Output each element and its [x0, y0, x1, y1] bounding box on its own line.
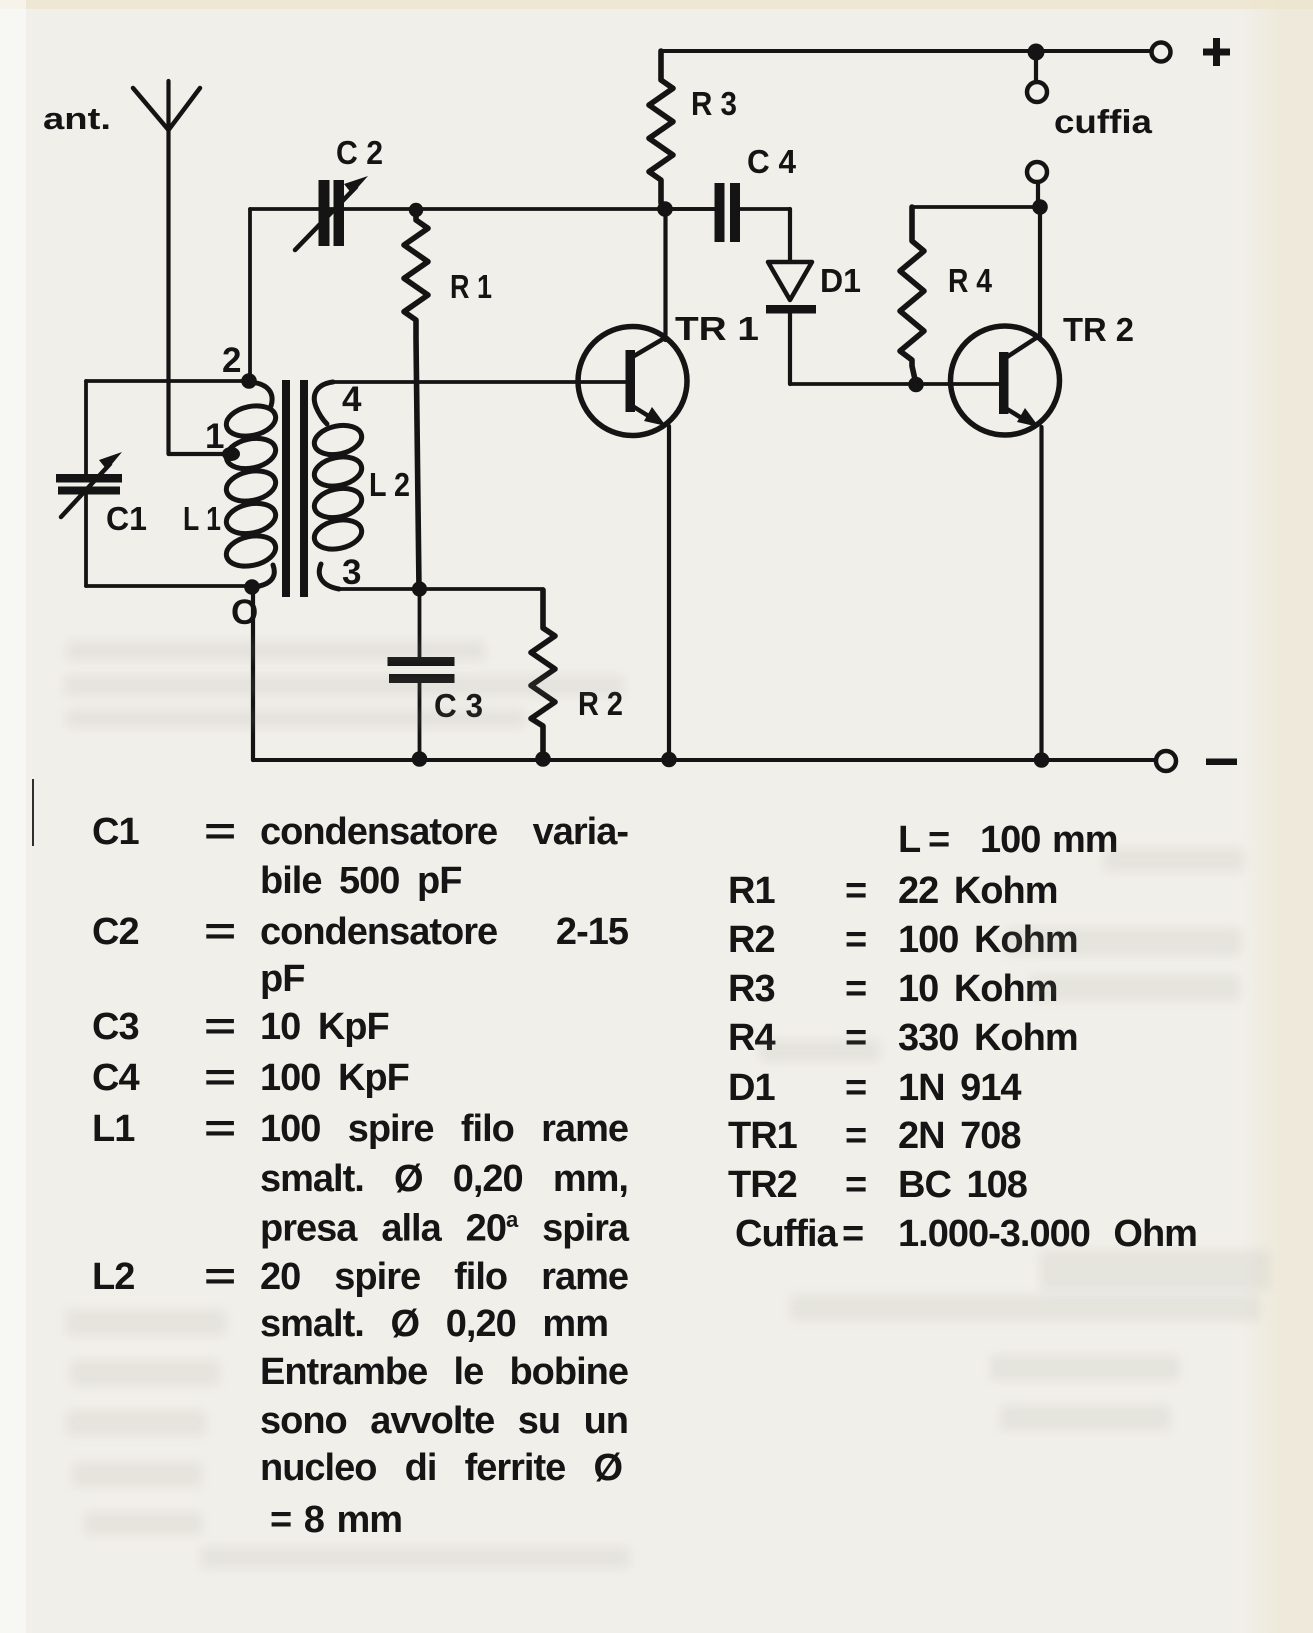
capacitor C3 [388, 589, 484, 760]
node R2 bottom [535, 751, 551, 767]
capacitor C1 (variable) [56, 452, 147, 537]
svg-text:R 4: R 4 [948, 262, 993, 299]
node C3 bottom [412, 751, 428, 767]
wire top supply rail [661, 49, 1150, 53]
node R3/C2/C4/TR1 junction [657, 201, 673, 217]
wire TR2 emitter down [1039, 427, 1043, 760]
transistor TR1 [578, 310, 759, 436]
schematic SVG [0, 0, 1313, 800]
wire L2 bottom / node3 line [339, 587, 543, 591]
svg-text:3: 3 [342, 553, 361, 592]
wire bottom ground rail [253, 758, 1156, 762]
node C3 top junction [412, 581, 427, 596]
wire C1 bottom to node O [86, 584, 252, 588]
diode D1 [766, 209, 861, 384]
capacitor C4 [665, 143, 797, 242]
node R4 bottom junction [908, 377, 924, 393]
inductor L1 [183, 382, 278, 587]
resistor R2 [531, 590, 623, 759]
paper edge tints [0, 0, 1313, 9]
terminal + [1152, 43, 1171, 62]
resistor R3 [649, 51, 737, 203]
svg-text:4: 4 [342, 380, 362, 419]
cuffia terminals [1027, 52, 1153, 202]
wire corner down to node 2 [248, 209, 252, 381]
resistor R4 [900, 207, 1040, 384]
wire TR1 collector up [663, 209, 667, 340]
inductor L2 [312, 382, 410, 589]
svg-text:TR 1: TR 1 [675, 310, 759, 347]
svg-text:TR 2: TR 2 [1063, 311, 1134, 348]
svg-text:C1: C1 [106, 500, 147, 537]
svg-text:cuffia: cuffia [1054, 103, 1153, 140]
wire TR1 emitter down [667, 426, 671, 760]
parts list right column [898, 819, 920, 862]
node R4/cuffia junction [1032, 199, 1048, 215]
bleed-through ghosts [66, 641, 486, 661]
svg-text:C 4: C 4 [747, 143, 797, 180]
node 2 [241, 373, 257, 389]
node TR1 emitter at rail [661, 752, 677, 768]
label + [1203, 38, 1230, 66]
capacitor C2 (variable) [295, 134, 383, 250]
parts list left column [92, 811, 139, 854]
svg-text:R 3: R 3 [691, 85, 737, 122]
wire C2 line [250, 207, 714, 211]
node top rail to cuffia junction [1028, 44, 1045, 61]
node O [244, 579, 260, 595]
transistor TR2 [951, 311, 1135, 435]
label - [1206, 759, 1237, 766]
wire node O down to ground rail [251, 590, 255, 760]
svg-text:L 2: L 2 [369, 466, 410, 503]
wire L2 top to TR1 base [333, 380, 626, 384]
svg-text:2: 2 [222, 341, 241, 380]
resistor R1 [404, 203, 492, 589]
svg-text:L 1: L 1 [183, 500, 221, 537]
wire TR2 collector up [1038, 207, 1042, 338]
svg-text:R 1: R 1 [450, 268, 492, 305]
antenna [43, 81, 222, 454]
node 1 tap on L1 [170, 417, 240, 461]
terminal - [1156, 751, 1176, 771]
transformer core [282, 380, 308, 597]
wire node2 to C1 branch [86, 379, 249, 383]
svg-text:ant.: ant. [43, 101, 111, 136]
node TR2 emitter at rail [1034, 752, 1050, 768]
wire C1 left vertical [84, 381, 88, 586]
wire D1 to TR2 base [790, 382, 999, 386]
svg-text:C 2: C 2 [336, 134, 383, 171]
svg-text:D1: D1 [820, 262, 861, 299]
svg-text:1: 1 [205, 417, 224, 456]
